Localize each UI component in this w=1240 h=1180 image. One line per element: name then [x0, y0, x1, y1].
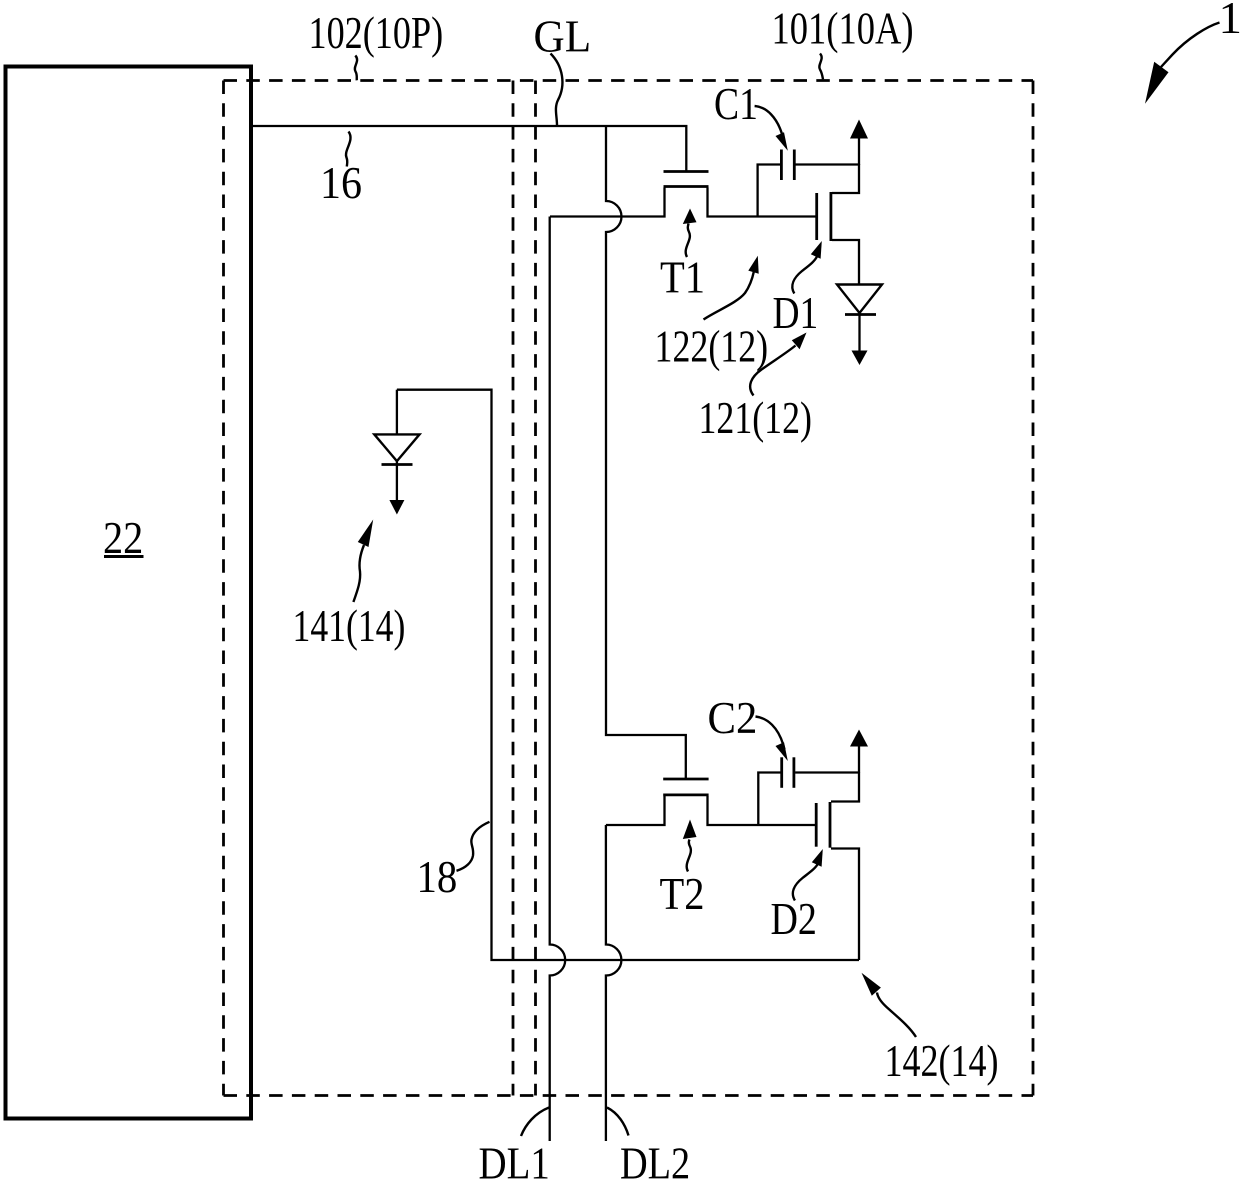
svg-text:T2: T2 — [660, 869, 705, 920]
svg-text:102(10P): 102(10P) — [309, 7, 444, 59]
svg-text:121(12): 121(12) — [699, 392, 812, 444]
svg-text:T1: T1 — [660, 252, 705, 303]
svg-text:122(12): 122(12) — [655, 320, 769, 372]
svg-text:16: 16 — [320, 157, 362, 208]
svg-text:1: 1 — [1219, 0, 1240, 44]
svg-text:DL2: DL2 — [620, 1138, 690, 1180]
svg-text:DL1: DL1 — [479, 1139, 550, 1180]
svg-text:18: 18 — [417, 852, 458, 903]
svg-text:142(14): 142(14) — [885, 1035, 999, 1087]
svg-text:C2: C2 — [708, 692, 758, 744]
svg-text:101(10A): 101(10A) — [772, 3, 914, 55]
svg-text:D1: D1 — [773, 289, 819, 339]
svg-text:D2: D2 — [771, 894, 817, 945]
svg-text:GL: GL — [534, 10, 592, 62]
svg-text:C1: C1 — [714, 80, 758, 130]
svg-text:141(14): 141(14) — [293, 600, 406, 653]
